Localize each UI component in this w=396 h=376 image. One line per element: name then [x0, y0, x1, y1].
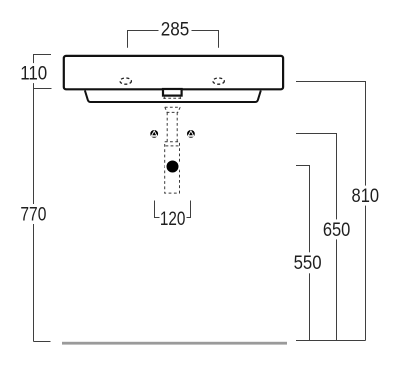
label 810 — [351, 186, 381, 208]
label 120 — [160, 209, 187, 230]
dim 770 bottom tick — [34, 341, 51, 343]
dim bottom tick right — [296, 340, 366, 342]
hidden drain sides (dashed) — [163, 96, 165, 101]
label 770 — [19, 204, 49, 226]
label 110 — [19, 63, 49, 85]
dim 120 left bracket — [155, 201, 160, 218]
basin apron lip (lower trapezoid) — [85, 91, 261, 103]
hidden drain top (dashed) — [163, 97, 181, 99]
overflow hole right (dashed ellipse) — [213, 78, 224, 84]
tailpiece trapezoid (dashed) — [165, 107, 180, 112]
overflow hole left (dashed ellipse) — [120, 78, 131, 84]
drain flange — [163, 89, 182, 96]
label 550 — [293, 252, 323, 273]
drain pipe (dashed verticals) — [167, 112, 177, 141]
floor line — [62, 342, 287, 345]
svg-text:285: 285 — [161, 20, 190, 41]
dimension lines — [34, 31, 366, 342]
valve left — [150, 130, 158, 138]
svg-text:810: 810 — [352, 186, 380, 207]
dim 120 right bracket — [186, 201, 191, 218]
washbasin body — [64, 56, 283, 89]
trap body (dashed rect) — [165, 142, 180, 193]
label 285 — [159, 20, 192, 41]
trap nut inner dashed line — [166, 145, 179, 147]
dim 110/770 vertical — [33, 54, 35, 342]
valve right — [187, 130, 195, 138]
svg-text:120: 120 — [160, 209, 186, 230]
dim 810 bracket — [296, 82, 366, 341]
dim 110 top tick — [34, 54, 52, 56]
svg-text:650: 650 — [323, 220, 351, 241]
svg-text:110: 110 — [20, 64, 47, 85]
dim 550 bracket — [296, 166, 310, 341]
trap outlet (black circle) — [165, 159, 181, 175]
svg-text:550: 550 — [294, 253, 322, 274]
dim 650 bracket — [296, 134, 337, 341]
dim 285 bracket — [128, 31, 219, 48]
dim 110 bottom tick — [34, 88, 52, 90]
svg-text:770: 770 — [20, 205, 46, 226]
label 650 — [322, 219, 352, 241]
